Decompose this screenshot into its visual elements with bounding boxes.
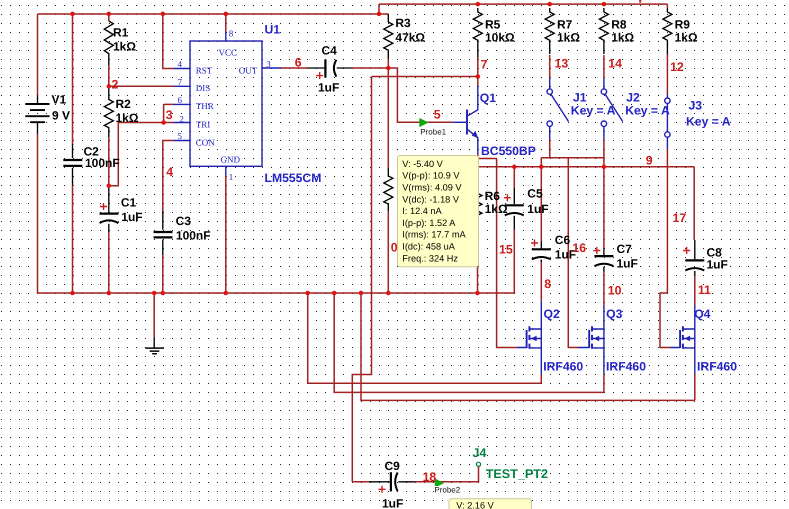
- wire net5 from C4 node to Q1 base: [388, 68, 452, 122]
- svg-text:Key = A: Key = A: [571, 104, 616, 118]
- svg-text:4: 4: [178, 59, 183, 69]
- wire OUT pin to C4: [281, 67, 308, 69]
- probe tooltip box 1: [398, 156, 479, 267]
- svg-text:1uF: 1uF: [617, 257, 638, 271]
- wire net15 down to Q2 gate: [497, 159, 517, 348]
- svg-text:I(rms): 17.7 mA: I(rms): 17.7 mA: [402, 230, 466, 240]
- svg-text:2: 2: [112, 78, 119, 92]
- wire net9 main run: [478, 166, 694, 168]
- wire W1 run: [308, 293, 542, 383]
- C7 plus: [593, 247, 600, 254]
- wire R4 top lead: [387, 68, 389, 168]
- node RST drop top: [161, 12, 166, 17]
- wire C5 bottom to bus end: [513, 230, 515, 294]
- svg-text:14: 14: [608, 57, 622, 71]
- probe tooltip box 2: [449, 499, 532, 509]
- C1 plus: [100, 203, 107, 210]
- wire W3 run: [361, 293, 695, 400]
- wire U1 pin8 VCC drop: [225, 14, 227, 32]
- capacitor C8: [685, 240, 704, 276]
- wire ground bus (net 0): [38, 292, 515, 294]
- probe Probe1 arrow: [419, 118, 428, 127]
- svg-text:C9: C9: [385, 459, 401, 473]
- wire R4 bottom to bus: [387, 211, 389, 293]
- U1 pin 2 TRI stub: [174, 122, 191, 124]
- C9 plus: [379, 486, 386, 493]
- svg-text:J2: J2: [626, 90, 640, 104]
- op-amp U1 LM555CM body: [190, 41, 262, 166]
- wire R6 top jog to net15: [478, 158, 497, 160]
- wire net9 end down to C8: [693, 167, 695, 240]
- svg-text:13: 13: [555, 57, 569, 71]
- bus junction C1: [107, 291, 112, 296]
- svg-text:4: 4: [166, 165, 173, 179]
- svg-text:BC550BP: BC550BP: [481, 144, 536, 158]
- node 9 junction C5: [512, 165, 517, 170]
- svg-text:R2: R2: [116, 97, 132, 111]
- resistor R4: [384, 168, 393, 211]
- bus junction C3: [161, 291, 166, 296]
- svg-text:5: 5: [178, 131, 183, 141]
- resistor R6: [473, 188, 482, 228]
- wire R1 bottom to node 2: [108, 66, 110, 87]
- svg-text:U1: U1: [265, 23, 281, 37]
- wire C7 top lead: [603, 167, 605, 249]
- resistor R5: [473, 8, 482, 58]
- wire net7 to C9: [352, 481, 368, 483]
- wire net7 down left side: [352, 77, 371, 482]
- svg-text:1: 1: [229, 172, 234, 182]
- wire battery V1 top lead up to rail: [37, 14, 39, 95]
- transistor Q4 IRF460: [671, 305, 695, 374]
- wire U1 pin1 GND to bus: [225, 176, 227, 293]
- wire THR stub: [164, 103, 174, 105]
- switch J1: [547, 78, 569, 140]
- svg-text:47kΩ: 47kΩ: [395, 30, 425, 44]
- battery V1: [25, 95, 49, 133]
- wire node 3 R2 to C1: [108, 138, 110, 186]
- svg-text:2: 2: [179, 114, 184, 124]
- wire C6 bottom to Q2 drain: [540, 260, 542, 301]
- svg-text:1uF: 1uF: [707, 258, 728, 272]
- wire net9 parallel left end down: [540, 158, 542, 167]
- ground symbol: [145, 337, 164, 353]
- wire R8 bottom to J2: [603, 55, 605, 78]
- wire C1 bottom to bus: [108, 232, 110, 293]
- svg-text:V: 2.16 V: V: 2.16 V: [456, 501, 494, 509]
- svg-text:DIS: DIS: [196, 83, 211, 93]
- wire R9 bottom to J3: [666, 4, 668, 94]
- svg-text:1uF: 1uF: [318, 80, 339, 94]
- svg-text:18: 18: [423, 470, 437, 484]
- wire ground symbol drop: [153, 293, 155, 337]
- svg-text:12: 12: [670, 60, 684, 74]
- svg-text:6: 6: [178, 95, 183, 105]
- svg-text:1kΩ: 1kΩ: [113, 39, 136, 53]
- svg-text:100nF: 100nF: [176, 228, 211, 242]
- wire tie between VCC tiers: [378, 4, 380, 14]
- connector J4 circle: [476, 462, 480, 466]
- bus junction W1: [305, 291, 310, 296]
- svg-text:GND: GND: [221, 155, 241, 165]
- svg-text:TRI: TRI: [196, 119, 211, 129]
- svg-text:C6: C6: [555, 233, 571, 247]
- svg-text:8: 8: [544, 277, 551, 291]
- net 1 clipped fragment: [639, 0, 641, 3]
- node R7 top: [547, 2, 552, 7]
- svg-text:1kΩ: 1kΩ: [611, 30, 634, 44]
- capacitor C1: [100, 186, 119, 232]
- svg-text:THR: THR: [196, 101, 214, 111]
- U1 pin 8 VCC stub: [225, 32, 227, 41]
- resistor R9: [663, 8, 672, 54]
- svg-text:11: 11: [698, 283, 711, 297]
- wire C7 bottom to Q3 drain: [603, 272, 605, 305]
- svg-text:RST: RST: [196, 65, 213, 75]
- wire R1 top lead: [108, 14, 110, 21]
- wire net7 R5/Q1 collector across: [372, 76, 478, 78]
- svg-text:IRF460: IRF460: [543, 359, 583, 373]
- svg-text:3: 3: [266, 59, 271, 69]
- svg-text:R8: R8: [611, 17, 627, 31]
- svg-text:VCC: VCC: [219, 47, 238, 57]
- svg-text:Q1: Q1: [480, 91, 496, 105]
- bus junction W3: [359, 291, 364, 296]
- C8 plus: [683, 247, 690, 254]
- wire net9 branch down to Q3 gate: [568, 158, 578, 348]
- node R1 top: [107, 12, 112, 17]
- node R8 top: [602, 2, 607, 7]
- wire R6 top lead: [477, 159, 479, 189]
- U1 pin 5 CON stub: [174, 140, 191, 142]
- resistor R7: [545, 8, 554, 54]
- svg-text:1kΩ: 1kΩ: [116, 111, 139, 125]
- wire C4 to node 0 junction: [352, 67, 389, 69]
- svg-text:6: 6: [295, 56, 302, 70]
- bus junction R4: [386, 291, 391, 296]
- svg-text:7: 7: [178, 77, 183, 87]
- capacitor C3: [154, 212, 173, 256]
- svg-text:1uF: 1uF: [121, 210, 142, 224]
- svg-text:TEST_PT2: TEST_PT2: [486, 467, 548, 481]
- wire net9 upper parallel run: [541, 157, 604, 159]
- node C2 top: [70, 12, 75, 17]
- svg-text:100nF: 100nF: [85, 156, 120, 170]
- svg-text:Key = A: Key = A: [625, 104, 670, 118]
- svg-text:1uF: 1uF: [527, 202, 548, 216]
- U1 pin 3 OUT stub: [262, 67, 281, 69]
- wire TRI to node 3 jog: [109, 123, 174, 186]
- svg-text:R7: R7: [557, 17, 573, 31]
- wire C2 column bottom: [72, 185, 74, 293]
- capacitor C6: [532, 242, 551, 263]
- wire W2 run: [334, 293, 604, 392]
- svg-text:V1: V1: [52, 93, 67, 107]
- resistor R2: [104, 86, 113, 138]
- svg-text:I: 12.4 nA: I: 12.4 nA: [402, 206, 442, 216]
- svg-text:R9: R9: [675, 17, 691, 31]
- node pin8 top: [224, 12, 229, 17]
- transistor Q2 IRF460: [517, 301, 541, 374]
- svg-text:17: 17: [673, 211, 687, 225]
- svg-text:9 V: 9 V: [52, 108, 70, 122]
- U1 pin 4 RST stub: [174, 68, 191, 70]
- node R5 top: [476, 2, 481, 7]
- node 9 junction C7: [602, 165, 607, 170]
- svg-text:8: 8: [229, 28, 234, 38]
- bus junction pin1: [224, 291, 229, 296]
- svg-text:16: 16: [572, 241, 586, 255]
- U1 pin 7 DIS stub: [174, 85, 191, 87]
- svg-text:V(dc): -1.18 V: V(dc): -1.18 V: [402, 194, 460, 204]
- svg-text:IRF460: IRF460: [606, 359, 646, 373]
- transistor Q1 BC550BP: [452, 86, 478, 155]
- svg-text:CON: CON: [196, 137, 216, 147]
- wire C9 right to probe/J4: [415, 466, 479, 481]
- svg-text:10: 10: [608, 283, 622, 297]
- capacitor C9: [369, 472, 415, 491]
- bus junction R6: [475, 291, 480, 296]
- wire R6 bottom to bus: [477, 228, 479, 293]
- svg-text:Probe1: Probe1: [420, 128, 446, 137]
- wire Q3 source to W2: [603, 374, 605, 392]
- svg-text:I(p-p): 1.52 A: I(p-p): 1.52 A: [402, 218, 456, 228]
- svg-text:10kΩ: 10kΩ: [485, 30, 515, 44]
- wire battery V1 bottom to ground bus: [37, 134, 39, 294]
- svg-text:1kΩ: 1kΩ: [557, 30, 580, 44]
- svg-text:R3: R3: [395, 16, 411, 30]
- U1 pin 6 THR stub: [174, 103, 191, 105]
- svg-text:V: -5.40 V: V: -5.40 V: [402, 159, 443, 169]
- svg-text:LM555CM: LM555CM: [265, 171, 322, 185]
- svg-text:R6: R6: [485, 189, 501, 203]
- switch J2: [601, 78, 623, 140]
- svg-text:1uF: 1uF: [382, 497, 403, 509]
- capacitor C2: [63, 144, 82, 185]
- wire C5 top lead: [513, 167, 515, 188]
- svg-text:Q3: Q3: [606, 307, 622, 321]
- svg-text:R5: R5: [485, 17, 501, 31]
- bus junction ground: [152, 291, 157, 296]
- svg-text:C5: C5: [527, 186, 543, 200]
- svg-text:J1: J1: [573, 90, 587, 104]
- svg-text:J3: J3: [689, 98, 703, 112]
- svg-text:C7: C7: [617, 242, 633, 256]
- svg-text:15: 15: [499, 242, 513, 256]
- node 3 junction at C1: [107, 183, 112, 188]
- svg-text:OUT: OUT: [239, 65, 258, 75]
- node 9 junction C6: [539, 165, 544, 170]
- wire CON pin to C3: [163, 141, 174, 214]
- wire Q1 emitter down to net9: [477, 154, 479, 167]
- wire C8 bottom to Q4 drain: [694, 276, 696, 305]
- wire net17 J3 to Q4 gate: [660, 149, 671, 348]
- bus junction C2: [70, 291, 75, 296]
- wire R7 bottom to J1: [549, 55, 551, 78]
- svg-text:C1: C1: [121, 196, 137, 210]
- wire THR to TRI tie: [163, 104, 165, 122]
- svg-text:5: 5: [434, 107, 441, 121]
- svg-text:IRF460: IRF460: [697, 359, 737, 373]
- wire J2 bottom drop: [603, 140, 605, 167]
- svg-text:Probe2: Probe2: [434, 486, 460, 495]
- switch J3 (closed): [665, 94, 670, 149]
- wire RST drop from rail: [163, 14, 174, 69]
- svg-text:C3: C3: [176, 214, 192, 228]
- transistor Q3 IRF460: [578, 305, 604, 374]
- probe Probe2 arrow: [435, 479, 444, 488]
- wire Q2 source to W1: [540, 374, 542, 383]
- svg-text:Q2: Q2: [544, 307, 560, 321]
- svg-text:V(rms): 4.09 V: V(rms): 4.09 V: [402, 183, 462, 193]
- svg-text:I(dc): 458 uA: I(dc): 458 uA: [402, 242, 455, 252]
- svg-text:Freq.: 324 Hz: Freq.: 324 Hz: [402, 253, 458, 263]
- C5 plus: [504, 194, 511, 201]
- svg-text:R1: R1: [113, 26, 129, 40]
- svg-text:3: 3: [166, 108, 173, 122]
- wire node 2 to DIS pin: [109, 85, 174, 87]
- node rail junction at tie: [377, 12, 382, 17]
- node 2 junction: [107, 84, 112, 89]
- svg-text:Key = A: Key = A: [686, 115, 731, 129]
- resistor R8: [599, 8, 608, 54]
- node 3 junction at THR/TRI: [161, 120, 166, 125]
- svg-text:V(p-p): 10.9 V: V(p-p): 10.9 V: [402, 171, 460, 181]
- svg-text:7: 7: [481, 57, 488, 71]
- wire C3 bottom to bus: [162, 255, 164, 293]
- wire R3 bottom lead: [387, 59, 389, 68]
- C4 plus: [316, 72, 323, 79]
- node 0/C4 junction: [386, 66, 391, 71]
- C6 plus: [531, 240, 538, 247]
- svg-text:0: 0: [391, 241, 398, 255]
- svg-text:C4: C4: [322, 43, 338, 57]
- svg-text:9: 9: [646, 153, 653, 167]
- wire C2 column top: [72, 14, 74, 144]
- node 7 junction at collector: [476, 74, 481, 79]
- wire Q4 source to W3: [694, 374, 696, 400]
- wire VCC top rail (net 1 upper tier): [379, 3, 667, 5]
- U1 pin 1 GND stub: [225, 166, 227, 176]
- svg-text:Q4: Q4: [694, 307, 710, 321]
- capacitor C5: [505, 188, 524, 230]
- wire C6 top lead: [540, 167, 542, 242]
- resistor R1: [104, 21, 113, 66]
- capacitor C7: [594, 248, 613, 272]
- svg-text:1kΩ: 1kΩ: [485, 202, 508, 216]
- wire VCC lower rail (net 1 lower tier): [38, 13, 389, 15]
- wire J1 bottom drop: [549, 140, 551, 158]
- svg-text:1kΩ: 1kΩ: [675, 30, 698, 44]
- svg-text:J4: J4: [472, 446, 486, 460]
- bus junction W2: [332, 291, 337, 296]
- resistor R3: [384, 14, 393, 59]
- capacitor C4: [308, 60, 352, 78]
- wire R5 bottom to collector node: [477, 58, 479, 86]
